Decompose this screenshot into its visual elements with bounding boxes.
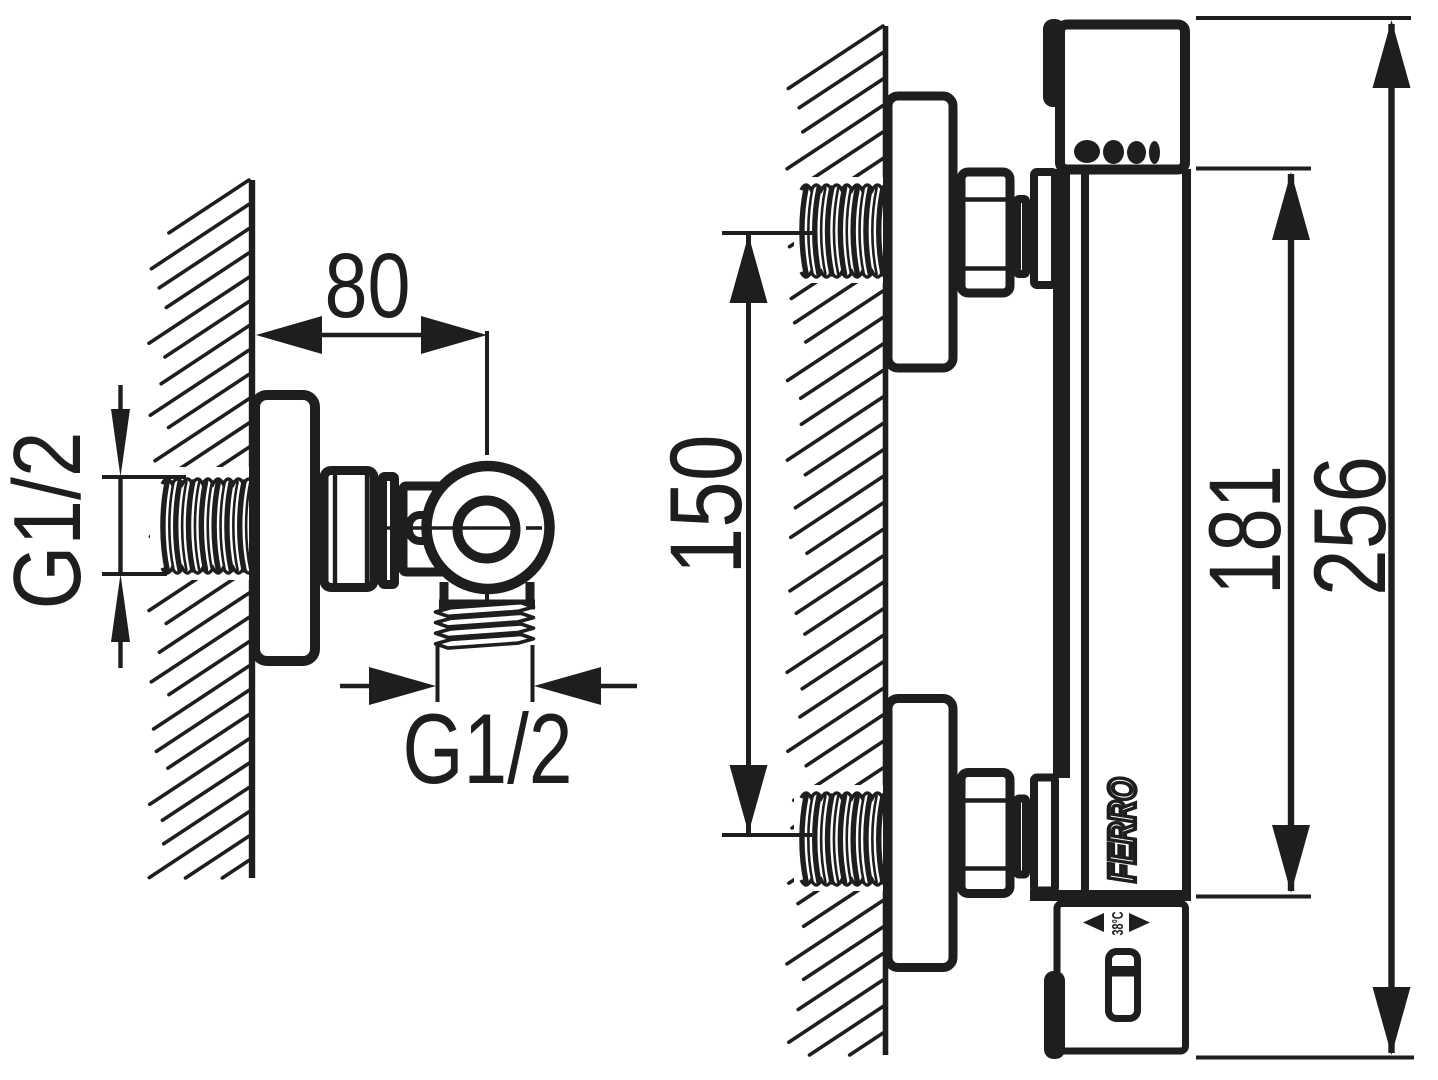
top rosette escutcheon (right view) <box>888 96 953 368</box>
bottom collar ring <box>1017 799 1026 875</box>
mixer cap knurl dots <box>1074 140 1100 163</box>
ext line 256 bottom <box>1196 1056 1414 1060</box>
top union nut (right view) <box>961 172 1010 293</box>
ext line 256 top <box>1196 16 1411 20</box>
rosette escutcheon (left view) <box>255 395 315 661</box>
dim G1/2 upper arrow tail <box>118 385 122 411</box>
bottom fitting centerline tick <box>722 833 812 837</box>
hatch clearing behind wall thread (left view) <box>150 467 249 580</box>
elbow body block <box>403 486 455 572</box>
dim G1/2 bottom right arrowhead (points left) <box>534 667 601 705</box>
dim 80 left arrowhead (points to wall) <box>256 316 322 354</box>
outlet pipe left side (extension line) <box>436 645 440 702</box>
wall face line (left view) <box>249 180 255 878</box>
dim 181 bottom arrowhead (down) <box>1272 825 1310 893</box>
union nut (left view) <box>324 471 374 588</box>
knob left triangle <box>1083 913 1104 932</box>
dim 256 bottom arrowhead (down) <box>1373 987 1411 1055</box>
dim 256 top arrowhead (up) <box>1373 20 1411 88</box>
outlet neck right side <box>526 582 535 604</box>
ext line 181 bottom <box>1196 895 1311 899</box>
union nut hex flat line 1 <box>333 472 337 586</box>
dim G1/2 lower arrowhead (up) <box>111 574 130 642</box>
dim 181 line <box>1288 174 1294 891</box>
svg-text:256: 256 <box>1293 456 1407 596</box>
extension/centerline vertical of outlet axis <box>485 331 489 455</box>
dim 80 right arrowhead <box>421 316 487 354</box>
dim 256 line <box>1388 24 1394 1053</box>
mixer body right edge <box>1182 169 1191 901</box>
wall hatching (right view) <box>787 26 883 1055</box>
dim G1/2 bottom left arrowhead (points right) <box>369 667 436 705</box>
wall thread G1/2 (left view) <box>163 482 167 570</box>
knob left tab <box>1044 971 1065 1059</box>
hatch clearing bottom thread (right view) <box>794 785 883 891</box>
wall hatching (left view) <box>149 180 249 878</box>
horizontal centerline of elbow <box>383 526 519 530</box>
top nut hex flat line 2 <box>963 266 1008 270</box>
elbow pivot outer circle <box>427 466 550 589</box>
mixer body inner line <box>1081 174 1089 890</box>
dim G1/2 lower arrow tail <box>118 640 122 668</box>
svg-text:150: 150 <box>649 435 763 575</box>
top fitting centerline tick <box>722 231 812 235</box>
hatch clearing top thread (right view) <box>794 177 883 283</box>
mixer top cap left pill <box>1043 19 1065 107</box>
outlet pipe right side (extension line) <box>531 645 535 702</box>
bottom nut hex flat line 2 <box>963 866 1008 870</box>
dim 150 top arrowhead (up) <box>730 235 768 303</box>
wall face line (right view) <box>883 26 889 1055</box>
dim G1/2 upper arrowhead (down) <box>111 409 130 477</box>
outlet shoulder line <box>439 600 535 610</box>
bottom inlet thread (right view) <box>802 796 806 882</box>
bottom union nut (right view) <box>961 773 1010 894</box>
svg-text:FERRO: FERRO <box>1102 778 1144 883</box>
bottom nut hex flat line 1 <box>963 798 1008 802</box>
knob right triangle <box>1129 913 1150 932</box>
top inlet block <box>1034 172 1055 285</box>
outlet thread G1/2 (blades) <box>436 603 534 617</box>
mixer top cap outline <box>1060 25 1185 170</box>
outlet neck left side <box>440 582 449 604</box>
knob handle grip bar <box>1112 966 1135 977</box>
dim G1/2 line between ticks <box>118 477 122 574</box>
dim 150 bottom arrowhead (down) <box>730 765 768 833</box>
thermostat knob outline <box>1057 904 1186 1052</box>
svg-text:38°C: 38°C <box>1110 912 1127 936</box>
dim G1/2 bottom right tail <box>600 684 637 688</box>
mixer body left bar <box>1053 169 1070 778</box>
bottom rosette escutcheon (right view) <box>888 699 953 968</box>
dim G1/2 upper extension tick <box>102 475 186 479</box>
mixer body bottom line <box>1030 890 1191 901</box>
svg-text:80: 80 <box>325 235 411 337</box>
top inlet thread (right view) <box>802 188 806 274</box>
elbow pivot inner circle <box>458 501 516 559</box>
svg-text:G1/2: G1/2 <box>0 432 101 610</box>
svg-text:181: 181 <box>1188 465 1302 595</box>
connector collar ring <box>383 477 395 585</box>
ext line 181 top <box>1196 167 1311 171</box>
dim 181 top arrowhead (up) <box>1272 172 1310 240</box>
knob handle grip outline <box>1109 952 1138 1019</box>
elbow pivot tab <box>409 515 441 541</box>
dim G1/2 lower extension tick <box>102 572 167 576</box>
svg-text:G1/2: G1/2 <box>403 693 573 804</box>
dim G1/2 bottom left tail <box>340 684 370 688</box>
union nut hex flat line 2 <box>365 472 369 586</box>
top nut hex flat line 1 <box>963 197 1008 201</box>
bottom inlet block <box>1034 778 1055 891</box>
top collar ring <box>1017 199 1026 274</box>
dim 80 line <box>322 333 421 338</box>
dim 150 line <box>746 233 751 835</box>
